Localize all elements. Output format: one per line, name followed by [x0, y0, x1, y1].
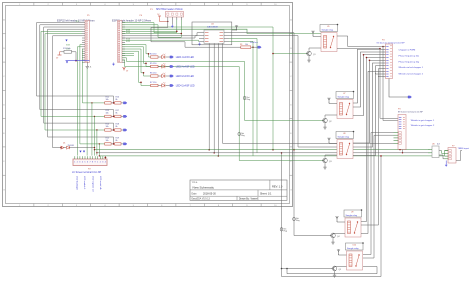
wire P6 to LED row 4 — [122, 51, 151, 85]
power 5V near R17 — [56, 52, 62, 60]
power VCC at U10 — [337, 249, 346, 255]
ground J1 below P5 — [86, 62, 92, 69]
wire U8 pin0 to P4 — [353, 60, 383, 143]
wire P6 pin2 to P1 — [122, 25, 158, 38]
title block — [190, 180, 287, 201]
connector P6 label — [112, 15, 151, 22]
wire wrap up — [282, 155, 382, 276]
svg-text:8k: 8k — [116, 140, 118, 142]
blue marks on cols — [79, 151, 85, 153]
ground below U4 — [198, 43, 201, 46]
P6 net label IO25 — [126, 41, 130, 43]
wire U4 bottom pin4 to P3 — [223, 43, 394, 143]
long wire 2 — [97, 152, 430, 154]
power VCC at U8 — [328, 138, 337, 144]
svg-text:DAC53608: DAC53608 — [207, 25, 218, 28]
svg-text:10k: 10k — [106, 112, 109, 114]
svg-text:LCD serial clk: LCD serial clk — [99, 176, 102, 190]
svg-text:2: 2 — [100, 162, 101, 164]
ground at Q2 — [323, 126, 326, 130]
wire U9 pin2 to P4 — [361, 71, 383, 233]
svg-text:IR Screen terminal 0.1in NP: IR Screen terminal 0.1in NP — [398, 110, 423, 113]
P3 net label 1 — [411, 119, 435, 122]
wire drop row3 to LCD — [96, 129, 97, 155]
P6 short stub 1 — [122, 55, 134, 57]
svg-text:8k: 8k — [116, 126, 118, 128]
connector P3 — [394, 115, 407, 150]
junction E base — [281, 268, 283, 270]
connector P5 (ESP32 left header) — [85, 21, 90, 63]
relay U9 — [344, 209, 362, 237]
resistor pair row 3 — [105, 124, 127, 132]
wire extra P4 pin11 — [376, 73, 383, 74]
transistor Q1 — [307, 51, 316, 56]
net label at R3 — [250, 41, 258, 44]
transistor Q4 — [331, 233, 340, 238]
P6 pin stubs — [122, 23, 125, 63]
wire U4 out3 — [229, 39, 257, 153]
svg-text:Songle relay: Songle relay — [322, 28, 335, 31]
svg-text:Whistle io get chopper 2: Whistle io get chopper 2 — [411, 124, 435, 127]
long wire 1 — [94, 149, 430, 151]
P2 rotated net label 2 — [83, 176, 85, 190]
wire P6 to LED row 2 — [122, 47, 151, 67]
svg-text:LED4 2x4 BF LED: LED4 2x4 BF LED — [176, 86, 195, 88]
svg-text:Songle relay: Songle relay — [346, 214, 359, 217]
wire P6 pin5 — [122, 30, 177, 32]
wire drop row1 to LCD — [91, 102, 92, 155]
wire U10 pin3 wrap — [287, 267, 377, 274]
svg-text:LED2 4x4 BF LED: LED2 4x4 BF LED — [176, 67, 195, 69]
junction long wires — [94, 147, 100, 157]
wire Q1 emitter — [308, 56, 310, 58]
P4 net label 2 — [399, 55, 420, 58]
svg-text:Drawn By: YasserE: Drawn By: YasserE — [239, 198, 259, 201]
transistor Q5 — [332, 266, 341, 271]
connector P4 (5V devices terminal) — [383, 44, 393, 79]
LED row 4 (R7 + LED4) — [150, 82, 195, 88]
wire U4 out2 — [229, 36, 337, 147]
wire U10 pin1 to P3 — [363, 135, 394, 258]
ground at P7 — [445, 161, 448, 167]
wire Q5 base stub — [332, 268, 334, 270]
wire P3 bottom wrap — [399, 149, 403, 154]
bundle junctions — [363, 54, 371, 61]
svg-text:Sheet: 1/1: Sheet: 1/1 — [260, 193, 272, 196]
svg-text:R6 150: R6 150 — [150, 72, 157, 74]
svg-text:J1: J1 — [90, 67, 92, 69]
ground at P1 — [171, 20, 174, 28]
wire P1 pin4 staircase — [158, 20, 182, 37]
P2 rotated net label 3 — [92, 176, 95, 192]
connector P1 label — [150, 8, 183, 11]
connector P6 (ESP32 right header) — [118, 21, 123, 63]
svg-text:3: 3 — [79, 162, 80, 164]
wire P5 pin6 green feed — [45, 34, 105, 130]
net flag A — [293, 217, 300, 222]
wire below P4 — [389, 79, 408, 98]
wire P1 pin1 staircase — [151, 20, 241, 47]
svg-text:LCD backlight: LCD backlight — [76, 176, 79, 190]
P5 green net labels — [66, 44, 70, 50]
relay U10 — [346, 242, 364, 270]
wire Q2 base stub — [322, 120, 324, 122]
P6 short stub 0 — [122, 52, 134, 54]
svg-text:Songle relay: Songle relay — [338, 135, 351, 138]
resistor R3 label — [240, 44, 248, 46]
wire P5 pin1 row feed — [37, 23, 114, 103]
connector P7 labels — [452, 146, 469, 151]
svg-text:Q4: Q4 — [337, 236, 340, 238]
wire branch to P3 pin1 — [379, 48, 398, 119]
wire P6 to LED row 3 — [122, 49, 151, 76]
svg-text:Flag: Flag — [241, 135, 245, 137]
wire to P3 pin2 — [382, 46, 398, 121]
resistor pair row 2 — [105, 110, 127, 118]
wire P6 pin1 to P1 — [122, 23, 154, 33]
wire P5 pin5 green feed — [41, 31, 105, 116]
connector P5 label — [57, 15, 95, 22]
LED row 1 (R4 + LED1) — [150, 53, 194, 59]
resistor R17 — [61, 50, 76, 60]
P2 rotated net label 1 — [76, 176, 79, 190]
wire P5 green b — [77, 47, 82, 156]
svg-text:Q3: Q3 — [329, 161, 332, 163]
power flag 5V at D1 — [60, 146, 64, 149]
P6 net label IO26 — [126, 39, 130, 41]
wire drop row2 to LCD — [94, 116, 95, 156]
P4 net label 1 — [399, 49, 416, 52]
wire P6 pin15 to relay U7 base — [122, 58, 324, 121]
ground at Q1 — [307, 59, 310, 63]
ground at Q3 — [323, 166, 326, 170]
junction U10 wrap — [286, 268, 288, 270]
svg-text:1: 1 — [74, 162, 75, 164]
svg-text:U8: U8 — [343, 133, 345, 135]
wire P5 pin3 row feed — [44, 27, 114, 130]
P1 pin stubs — [168, 17, 182, 20]
wire P6 pin8 — [122, 36, 199, 38]
resistor pair row 4 — [105, 138, 127, 146]
wire P6 pin6 — [122, 33, 181, 35]
svg-text:3: 3 — [102, 162, 103, 164]
resistor R3 — [241, 46, 258, 49]
wire U8 collector — [325, 155, 337, 158]
connector P2 (LC screen terminal) — [73, 156, 107, 165]
wire U5 pinB to P4 — [337, 48, 383, 51]
blue wire V bus — [66, 60, 90, 62]
wire P6 pin4 to relay U5 coil — [122, 29, 321, 33]
wire U4 out1 — [229, 33, 331, 236]
svg-text:R17 10k: R17 10k — [63, 48, 70, 50]
connector P7 (TRRS input) — [445, 148, 463, 164]
P3 net label 2 — [411, 124, 435, 127]
relay U8 — [336, 131, 354, 159]
net flag B — [280, 227, 287, 232]
wire P5 green a — [80, 45, 105, 144]
wire U4 bottom pin1 — [208, 43, 210, 150]
svg-text:G: G — [290, 189, 292, 191]
svg-text:buf: buf — [437, 144, 440, 146]
wire P6 pin7 — [122, 33, 199, 36]
svg-text:New Schematic: New Schematic — [193, 185, 215, 189]
junction dots mid — [272, 53, 295, 154]
svg-text:U7: U7 — [343, 93, 345, 95]
svg-text:REV: 1.0: REV: 1.0 — [272, 185, 283, 189]
wire Q5 emitter — [334, 271, 336, 273]
wire U4 bottom pin2 — [213, 43, 215, 153]
P5 net label 3V3 — [76, 21, 79, 23]
svg-text:G: G — [3, 189, 5, 191]
svg-text:Whistle via led chopper 1: Whistle via led chopper 1 — [399, 66, 424, 69]
svg-text:EasyEDA V5.9.13: EasyEDA V5.9.13 — [192, 198, 211, 201]
wire LCD col mid — [86, 69, 88, 156]
port arrow R3 — [258, 46, 262, 48]
svg-text:Whistle via led chopper 2: Whistle via led chopper 2 — [399, 73, 424, 76]
svg-text:SPI/JTAG header 2.54mm: SPI/JTAG header 2.54mm — [156, 8, 183, 11]
svg-text:7: 7 — [90, 162, 91, 164]
power VCC at U7 — [328, 98, 337, 104]
wire loop around U4 — [192, 22, 232, 45]
wire Q4 emitter — [332, 238, 334, 240]
junction R17 — [75, 60, 77, 62]
svg-text:U9: U9 — [351, 212, 353, 214]
diode D1 — [64, 146, 94, 149]
P2 junction dot — [105, 157, 107, 159]
power flag below P6 — [123, 67, 129, 73]
svg-text:U5: U5 — [327, 26, 329, 28]
blue arrow upper — [65, 40, 67, 42]
svg-text:8: 8 — [92, 162, 93, 164]
wire U10 collector — [335, 265, 347, 268]
svg-text:R7 150: R7 150 — [150, 82, 157, 84]
wire U10 pin0 to P3 — [363, 133, 394, 255]
net flag D — [238, 132, 245, 137]
svg-text:4: 4 — [82, 162, 83, 164]
svg-text:LED1 4x4 IR LED: LED1 4x4 IR LED — [176, 57, 194, 59]
svg-text:Flag: Flag — [284, 230, 288, 232]
long wire 3 — [99, 151, 448, 156]
wire extra P4 pin12 — [379, 75, 383, 78]
power VCC at U9 — [336, 216, 345, 222]
wire P5 green c — [82, 49, 105, 103]
wire P5 pin4 row feed — [48, 29, 114, 144]
blue port below P4 — [408, 96, 412, 98]
svg-text:8k: 8k — [116, 112, 118, 114]
wire branch relay U5 base — [273, 53, 308, 55]
svg-text:Chopper io PWM: Chopper io PWM — [399, 49, 416, 52]
IC U4 (DAC) — [199, 30, 229, 43]
connector P4 labels — [377, 39, 406, 44]
P4 net label 3 — [399, 60, 420, 63]
wire U4 out4 — [229, 41, 253, 155]
svg-text:IO25: IO25 — [126, 41, 130, 43]
svg-text:R4 150: R4 150 — [150, 53, 157, 55]
wire P7 feed — [442, 151, 445, 154]
svg-text:Q2: Q2 — [329, 121, 332, 123]
wire U7 pin1 to P4 — [353, 52, 383, 107]
wire U9 pin1 to P4 — [361, 69, 383, 226]
svg-text:Q1: Q1 — [313, 54, 316, 56]
svg-text:D1: D1 — [63, 143, 65, 145]
svg-text:TITLE:: TITLE: — [192, 182, 199, 184]
svg-text:LCD register sel: LCD register sel — [92, 176, 95, 192]
wire Q4 base stub — [330, 235, 332, 237]
wire Q3 base stub — [322, 160, 324, 162]
svg-text:Songle relay: Songle relay — [338, 95, 351, 98]
wire U9 collector — [333, 232, 345, 235]
wire Q3 emitter — [324, 163, 326, 165]
svg-text:2018-05-30: 2018-05-30 — [203, 193, 216, 196]
LED row 3 (R6 + LED3) — [150, 72, 194, 78]
svg-text:4: 4 — [105, 162, 106, 164]
blue arrow on bus — [66, 61, 68, 63]
P6 net label IO12 — [126, 30, 130, 32]
svg-text:LC Screen terminal 0.1in NP: LC Screen terminal 0.1in NP — [72, 171, 102, 174]
relay U5 — [320, 24, 338, 52]
wire P5 pin7 to D1 — [53, 36, 82, 148]
wire U8 pin1 to P4 — [353, 63, 383, 147]
svg-text:1: 1 — [97, 162, 98, 164]
svg-text:6: 6 — [87, 162, 88, 164]
ground at Q4 — [331, 241, 334, 245]
svg-text:8k: 8k — [116, 99, 118, 101]
svg-text:U10: U10 — [353, 245, 356, 247]
P6 net label IO14 — [126, 32, 130, 34]
resistor R17 label — [63, 48, 70, 50]
IC U4 labels — [207, 24, 218, 29]
connector P3 label — [398, 109, 423, 114]
transistor Q2 — [323, 118, 332, 123]
wire U4 bottom pin3 — [218, 43, 220, 156]
wire P6 pin9 — [122, 40, 199, 41]
wire P6 pin3 to relay U5 base — [122, 27, 273, 150]
svg-text:2: 2 — [77, 162, 78, 164]
wire long2 branch to relay U10 base — [282, 153, 333, 269]
svg-text:Flag: Flag — [296, 220, 300, 222]
P2 rotated net label 4 — [99, 176, 102, 190]
wire U7 pin0 to P4 — [353, 49, 383, 103]
P2 labels — [72, 169, 102, 174]
P4 net label 4 — [399, 66, 424, 69]
P5 pin stubs — [82, 23, 85, 63]
wire P5 pin2 row feed — [40, 25, 114, 117]
net flag C — [243, 96, 250, 101]
IC U6 labels — [432, 144, 440, 146]
relay U7 — [336, 91, 354, 119]
ground at Q5 — [333, 274, 336, 278]
wire P6 to LED row 1 — [122, 45, 151, 57]
svg-text:LED3 2x4 IR LED: LED3 2x4 IR LED — [176, 76, 194, 78]
svg-text:10k: 10k — [106, 140, 109, 142]
P6 bottom port arrow — [112, 63, 115, 66]
svg-text:Q5: Q5 — [339, 269, 342, 271]
wire P6 pin16 to relay U8 base — [122, 60, 324, 161]
connector P1 (SPI/JTAG header) — [166, 12, 184, 18]
wire P1 pin3 staircase — [154, 20, 178, 33]
LED row 2 (R5 + LED2) — [150, 63, 195, 69]
wire U7 collector — [325, 115, 337, 118]
svg-text:Whistle io get chopper 1: Whistle io get chopper 1 — [411, 119, 435, 122]
wire U5 pinA to P4 — [337, 36, 383, 47]
wire U7 pin2 to P4 — [353, 55, 383, 116]
P4 net label 5 — [399, 73, 424, 76]
svg-text:10k: 10k — [106, 99, 109, 101]
svg-text:9: 9 — [95, 162, 96, 164]
wire drop row4 to LCD — [99, 143, 100, 155]
wire Q2 emitter — [324, 123, 326, 125]
diode D1 labels — [63, 143, 74, 147]
wire U8 pin2 to P4 — [353, 66, 383, 156]
IC U6 — [428, 146, 445, 159]
power 5V at P1 — [157, 14, 168, 22]
svg-text:10k: 10k — [106, 126, 109, 128]
power VCC at U5 — [312, 31, 321, 37]
svg-text:TRRS input: TRRS input — [458, 147, 470, 150]
svg-text:Phase frequency 10y: Phase frequency 10y — [399, 60, 420, 63]
svg-text:Songle relay: Songle relay — [347, 247, 360, 250]
svg-text:Flag: Flag — [247, 99, 251, 101]
resistor pair row 1 — [105, 97, 127, 105]
wire U5 collector — [309, 48, 321, 51]
transistor Q3 — [323, 158, 332, 163]
svg-text:IO33: IO33 — [66, 44, 70, 46]
svg-text:LCD enable 1: LCD enable 1 — [83, 176, 85, 190]
wire Q1 base stub — [306, 53, 308, 55]
svg-text:Phase frequency 10x: Phase frequency 10x — [399, 55, 420, 58]
svg-text:R5 150: R5 150 — [150, 63, 157, 65]
sheet frame — [3, 3, 293, 208]
power VCC at U4 — [232, 25, 238, 31]
svg-text:5: 5 — [84, 162, 85, 164]
wire U9 pin0 to P4 — [361, 58, 383, 222]
svg-text:Date:: Date: — [192, 193, 198, 196]
